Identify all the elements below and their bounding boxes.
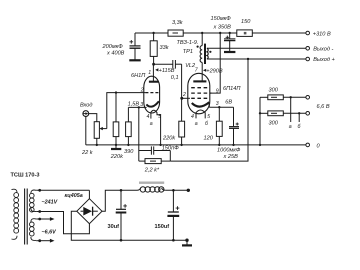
wire connector ground (85, 117, 87, 145)
triode cathode (146, 101, 159, 106)
wire bridge plus out (102, 190, 137, 211)
svg-text:~6,6V: ~6,6V (42, 229, 57, 235)
secondary winding 241V (31, 190, 36, 193)
svg-text:3: 3 (216, 101, 219, 107)
wire 6,6V top lead (36, 218, 51, 220)
wire 6,6V bottom lead (36, 240, 51, 242)
pentode grid g2 screen (191, 92, 212, 94)
pentode grid g3 (191, 87, 208, 89)
svg-text:150uf: 150uf (155, 224, 170, 230)
junction 6,6В lower / stub б (298, 112, 300, 114)
junction PSU rail / C30uf top (120, 189, 123, 192)
terminal 6,6В a (306, 96, 310, 100)
ground (224, 51, 235, 53)
svg-text:ТСШ 170-3: ТСШ 170-3 (11, 172, 40, 178)
svg-text:150: 150 (241, 19, 251, 25)
wire wiper to grid (107, 93, 146, 129)
svg-text:22 k: 22 k (81, 150, 94, 156)
svg-text:220k: 220k (110, 154, 124, 160)
svg-text:9: 9 (216, 88, 219, 94)
junction bus / R390 bottom (127, 144, 129, 146)
svg-text:3: 3 (140, 102, 143, 108)
svg-text:4: 4 (147, 114, 150, 120)
svg-text:х 400В: х 400В (106, 51, 125, 57)
psu ground bus (121, 239, 187, 241)
wire bridge minus out (71, 211, 121, 240)
svg-text:200мкФ: 200мкФ (102, 44, 124, 50)
resistor 300 upper (260, 96, 268, 98)
polarity dot TP1 primary (197, 46, 199, 48)
junction B+ rail / C150мкФ (229, 32, 231, 34)
svg-text:кц405а: кц405а (65, 193, 83, 199)
core (24, 189, 26, 245)
junction PSU minus bus / C150uf bottom (172, 239, 175, 242)
junction VL2 cathode / R120 top (218, 106, 220, 108)
main ground bus (86, 144, 306, 146)
junction humdinger left node (259, 112, 261, 114)
bridge rectifier кц405а (77, 199, 102, 224)
pentode anode (201, 71, 203, 82)
triode anode (152, 64, 154, 81)
wire 241V top lead to bridge (36, 189, 89, 191)
pin 4 stub (150, 112, 152, 118)
primary winding (12, 189, 18, 193)
svg-text:150пФ: 150пФ (162, 146, 179, 152)
svg-text:120: 120 (204, 136, 214, 142)
resistor 3,3k (168, 30, 183, 36)
svg-text:33k: 33k (160, 45, 170, 51)
polarity plus C 30uf (123, 204, 127, 208)
junction bus / pot bottom (96, 144, 98, 146)
junction bus / R220k bottom / chassis (115, 144, 117, 146)
psu ground symbol (186, 240, 188, 244)
polarity plus C 150uf (176, 206, 180, 210)
terminal dot winding 241V top lead (38, 189, 41, 192)
terminal dot winding 241V bottom lead (38, 210, 41, 213)
pentode VL2 6П14П envelope (188, 73, 210, 114)
terminal Выход- (306, 47, 310, 51)
svg-text:300: 300 (269, 120, 279, 126)
svg-text:+115В: +115В (159, 68, 175, 74)
wire 241V bottom lead to bridge (36, 212, 89, 234)
junction 6,6В upper / stub а (290, 96, 292, 98)
junction PSU rail / C150uf top (172, 189, 175, 192)
capacitor 150пФ (139, 150, 151, 152)
junction VL2 grid / R220k top (180, 97, 183, 100)
svg-text:4: 4 (191, 114, 194, 120)
resistor 2,2k* (139, 160, 145, 162)
junction bus / humdinger leg (259, 144, 261, 146)
terminal dot winding 6,6V bottom lead (38, 239, 41, 242)
triode heater (151, 110, 157, 113)
wire screen to rail (212, 33, 220, 93)
terminal Выход+ (306, 57, 310, 61)
svg-text:6Н1П: 6Н1П (131, 73, 146, 79)
coupling capacitor 0,1 (153, 63, 172, 65)
junction B+ rail / R33k top (152, 32, 154, 34)
wire to pentode grid (181, 64, 183, 98)
resistor 220k pentode grid (181, 98, 183, 121)
arrow to node +115В (155, 68, 158, 71)
svg-text:6,6 В: 6,6 В (317, 104, 330, 110)
junction B+ rail / screen grid feed (219, 32, 221, 34)
svg-text:а: а (195, 121, 198, 127)
svg-text:6В: 6В (225, 100, 232, 106)
svg-text:5: 5 (158, 114, 161, 120)
junction VL1 cathode / feedback tap (138, 106, 140, 108)
svg-text:+290В: +290В (206, 68, 223, 74)
svg-text:х 350В: х 350В (213, 25, 232, 31)
pentode grid g1 (191, 97, 208, 99)
transformer TP1 output (200, 33, 208, 71)
svg-text:Вход: Вход (80, 102, 92, 108)
capacitor 150мкФ (229, 33, 231, 39)
svg-text:1: 1 (148, 70, 151, 76)
junction Выход+ / feedback return (247, 58, 249, 60)
resistor 33k (153, 33, 155, 41)
resistor 120 (218, 107, 220, 121)
input connector arrowhead (85, 112, 88, 115)
svg-text:30uf: 30uf (108, 224, 120, 230)
junction bus / R220k-2 bottom (180, 144, 182, 146)
pin 5 wire to bus (157, 112, 161, 144)
terminal dot PSU minus / ground (185, 239, 188, 242)
svg-text:Выход -: Выход - (313, 46, 333, 52)
pin 5 stub (204, 112, 206, 118)
pentode heater (196, 110, 206, 113)
resistor 220k grid (115, 93, 117, 122)
wire input to pot (89, 114, 97, 122)
feedback return wire (170, 59, 248, 161)
svg-text:~241V: ~241V (42, 199, 58, 205)
wire triode cathode (128, 106, 146, 108)
polarity dot TP1 secondary (209, 51, 211, 53)
resistor 150 (237, 30, 253, 37)
svg-text:+310 В: +310 В (313, 31, 331, 37)
capacitor 30uf (120, 190, 122, 209)
arrowhead winding 6,6V top lead (50, 217, 55, 221)
polarity plus C 150мкФ (226, 36, 229, 39)
ground stub (115, 145, 117, 148)
terminal 6,6В b (306, 112, 310, 116)
arrowhead winding 6,6V bottom lead (50, 239, 55, 243)
svg-text:ТВЗ-1-9.: ТВЗ-1-9. (177, 40, 199, 46)
svg-text:а: а (289, 124, 292, 130)
svg-text:2,2 k*: 2,2 k* (144, 167, 160, 173)
svg-text:2: 2 (140, 87, 144, 93)
ground (129, 59, 140, 61)
svg-text:1000мкФ: 1000мкФ (217, 148, 241, 154)
capacitor 150uf (172, 190, 174, 211)
terminal dot PSU +output (187, 189, 190, 192)
pentode cathode (192, 102, 210, 106)
svg-text:1,5В: 1,5В (128, 101, 140, 107)
pot wiper (102, 128, 107, 130)
junction B+ rail / TP1 primary (201, 32, 203, 34)
potentiometer 22k (94, 122, 99, 139)
svg-text:300: 300 (269, 87, 279, 93)
choke inductor (137, 182, 165, 193)
wire output plus (207, 58, 306, 60)
triode grid (145, 92, 158, 94)
wire output minus (207, 47, 306, 49)
svg-text:ТР1: ТР1 (183, 49, 193, 55)
terminal dot winding 6,6V top lead (38, 218, 41, 221)
humdinger divider vertical (259, 97, 261, 145)
polarity plus C 200мкФ (130, 40, 134, 44)
terminal +310В (306, 31, 310, 35)
svg-text:Выход +: Выход + (313, 57, 335, 63)
polarity plus C 1000мкФ (236, 123, 239, 126)
junction VL1 anode / R33k / C0,1 (152, 63, 155, 66)
junction PSU minus bus / C30uf bottom (120, 239, 123, 242)
junction bus / R120 bottom (218, 144, 220, 146)
svg-text:6П14П: 6П14П (223, 86, 241, 92)
pin 4 stub (195, 112, 197, 118)
link stub а (290, 97, 292, 122)
wire pentode cathode (209, 106, 233, 108)
arrow to node +290В (203, 69, 206, 72)
input connector (83, 111, 89, 117)
resistor 390 (127, 107, 129, 122)
svg-text:0,1: 0,1 (171, 75, 179, 81)
wire B+ rail (135, 32, 168, 34)
capacitor 1000мкФ (233, 107, 235, 126)
capacitor 200мкФ (134, 33, 136, 46)
PSU transformer ТСШ 170-3 (12, 189, 37, 245)
wiper arrowhead R 22k (99, 127, 102, 130)
secondary winding (207, 48, 208, 59)
svg-text:5: 5 (207, 114, 210, 120)
triode VL1 6Н1П envelope (144, 76, 160, 113)
primary winding (201, 33, 203, 46)
svg-text:220k: 220k (162, 136, 176, 142)
svg-text:3,3k: 3,3k (172, 20, 184, 26)
svg-text:а: а (150, 121, 153, 127)
terminal 0 (306, 143, 310, 147)
junction grid wire / R220k top (115, 91, 117, 93)
junction bus / VL1 heater pin5 (159, 144, 161, 146)
svg-text:х 25В: х 25В (223, 154, 239, 160)
svg-text:390: 390 (124, 149, 134, 155)
svg-text:150мкФ: 150мкФ (211, 16, 232, 22)
link stub б (298, 113, 300, 122)
secondary winding 6,6V (31, 219, 36, 222)
core (204, 44, 206, 64)
resistor 300 lower (260, 112, 268, 114)
feedback tap vertical (138, 107, 140, 161)
junction bus / C1000мкФ bottom (232, 144, 234, 146)
